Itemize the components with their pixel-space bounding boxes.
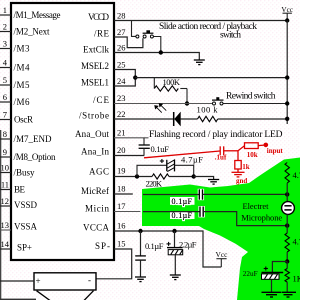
svg-text:8: 8 bbox=[3, 129, 7, 139]
red resistor 1k bbox=[235, 151, 250, 173]
svg-text:Ana_In: Ana_In bbox=[81, 147, 110, 157]
red wire 10k to input bbox=[258, 144, 264, 147]
svg-text:1k: 1k bbox=[242, 163, 250, 171]
svg-text:19: 19 bbox=[117, 166, 126, 176]
pin 11 BE bbox=[0, 180, 26, 195]
svg-text:OscR: OscR bbox=[14, 115, 33, 125]
svg-text:/M4: /M4 bbox=[14, 63, 31, 73]
svg-text:0.1µF: 0.1µF bbox=[172, 197, 193, 206]
svg-text:Ana_Out: Ana_Out bbox=[75, 129, 109, 139]
pin 27 /RE bbox=[94, 27, 126, 39]
speaker SPK bbox=[34, 273, 96, 300]
wire MicRef to cap bbox=[143, 194, 199, 196]
pin 3 /M3 bbox=[0, 39, 30, 54]
pin 5 /M5 bbox=[0, 75, 30, 90]
svg-text:2.2µF: 2.2µF bbox=[179, 239, 197, 249]
wire slide switch left contact to VCCD bbox=[132, 21, 136, 37]
svg-text:SP-: SP- bbox=[95, 241, 110, 251]
svg-text:MicRef: MicRef bbox=[81, 186, 109, 196]
junction rail end bbox=[285, 117, 289, 121]
pin 16 VCCA bbox=[83, 221, 126, 233]
junction AGC right bbox=[192, 174, 196, 178]
pin 25 MSEL2 bbox=[81, 60, 126, 71]
ground 2.2uF bbox=[170, 275, 181, 280]
wire cap to mic top bbox=[203, 193, 288, 195]
wire speaker plus bbox=[0, 280, 34, 282]
wire /Strobe to LED bbox=[114, 118, 174, 120]
pin 1 /M1_Message bbox=[0, 5, 61, 20]
svg-text:0.1uF: 0.1uF bbox=[151, 144, 170, 154]
svg-text:Flashing record / play indicat: Flashing record / play indicator LED bbox=[149, 130, 283, 140]
pin 12 VSSD bbox=[0, 196, 38, 210]
svg-text:VSSD: VSSD bbox=[14, 200, 38, 210]
junction mic top bbox=[285, 192, 289, 196]
svg-text:VCCD: VCCD bbox=[88, 12, 110, 22]
wire MicRef stub bbox=[114, 193, 133, 195]
red wire Ana_In bbox=[144, 151, 220, 158]
green highlighter region bbox=[142, 158, 300, 300]
svg-text:2: 2 bbox=[3, 22, 7, 32]
red ground gnd bbox=[232, 172, 248, 185]
capacitor 0.1uF coupling bbox=[139, 138, 170, 156]
wire /RE to slide switch middle contact bbox=[114, 37, 143, 48]
white label box 0.1uF bottom bbox=[170, 211, 195, 220]
wire slide switch right contact to ExtClk line bbox=[154, 37, 161, 53]
ground 0.1uF bbox=[135, 277, 146, 282]
svg-text:/M6: /M6 bbox=[14, 97, 31, 107]
capacitor 0.1uF VCCA bbox=[135, 231, 164, 277]
wire AGC to ground bbox=[194, 177, 214, 180]
red resistor 10k bbox=[245, 143, 259, 159]
resistor 4.7K top (mic bias) bbox=[285, 163, 303, 195]
Vcc rail vertical bbox=[286, 21, 288, 125]
pin 18 MicRef bbox=[81, 184, 126, 196]
capacitor 0.1uF mic bottom bbox=[200, 207, 203, 217]
scan edge left bbox=[0, 130, 1, 300]
red wire cap to T bbox=[224, 150, 238, 152]
svg-text:100K: 100K bbox=[163, 77, 181, 87]
svg-text:MSEL1: MSEL1 bbox=[81, 78, 109, 88]
wire MSEL2/MSEL1 join bbox=[114, 70, 135, 87]
capacitor 4.7uF electrolytic bbox=[160, 155, 203, 172]
pin 20 Ana_In bbox=[81, 145, 126, 156]
svg-text:switch: switch bbox=[220, 31, 241, 41]
svg-text:21: 21 bbox=[117, 128, 126, 138]
svg-text:AGC: AGC bbox=[89, 167, 109, 177]
resistor 4.7K bottom bbox=[285, 226, 303, 262]
resistor 100K bbox=[154, 77, 187, 104]
pin 15 SP- bbox=[95, 239, 126, 251]
svg-text:6: 6 bbox=[3, 92, 7, 102]
pin 24 MSEL1 bbox=[81, 76, 126, 87]
svg-text:12: 12 bbox=[1, 196, 10, 206]
pin 14 SP+ bbox=[0, 239, 32, 252]
pin 4 /M4 bbox=[0, 58, 30, 73]
svg-text:/Strobe: /Strobe bbox=[79, 111, 109, 121]
capacitor 2.2uF electrolytic bbox=[167, 231, 197, 275]
junction Vcc/VCCD bbox=[285, 18, 289, 22]
pin 28 VCCD bbox=[88, 11, 126, 23]
red input terminal bbox=[264, 143, 269, 148]
junction mic bias bbox=[285, 259, 289, 263]
svg-text:14: 14 bbox=[1, 239, 10, 249]
red capacitor .1uf bbox=[215, 146, 227, 161]
svg-text:/M1_Message: /M1_Message bbox=[14, 10, 61, 20]
svg-text:+: + bbox=[36, 276, 41, 286]
pin 10 /Busy bbox=[0, 163, 35, 178]
wire Ana_In bbox=[114, 155, 144, 157]
microphone M1 bbox=[282, 194, 295, 225]
ground 1K bbox=[282, 292, 296, 297]
Vcc symbol bottom bbox=[216, 250, 229, 267]
LED D1 bbox=[155, 104, 181, 127]
svg-text:220K: 220K bbox=[146, 178, 163, 188]
svg-text:22: 22 bbox=[117, 109, 126, 119]
junction slide/ExtClk bbox=[159, 50, 163, 54]
resistor 220K bbox=[146, 174, 169, 188]
svg-text:3: 3 bbox=[3, 39, 7, 49]
svg-text:.1uf: .1uf bbox=[215, 154, 227, 162]
wire LED to 100 k bbox=[180, 118, 197, 120]
svg-text:/M8_Option: /M8_Option bbox=[14, 152, 57, 162]
pin 2 /M2_Next bbox=[0, 22, 50, 37]
ground 22uF bbox=[262, 292, 282, 297]
pin 23 /CE bbox=[93, 93, 126, 105]
junction VCCA/2.2uF bbox=[172, 229, 176, 233]
svg-text:BE: BE bbox=[14, 185, 26, 195]
pin 22 /Strobe bbox=[79, 109, 126, 120]
svg-text:Vcc: Vcc bbox=[281, 6, 293, 14]
scan edge bottom bbox=[0, 299, 36, 300]
svg-text:SP+: SP+ bbox=[17, 242, 32, 252]
svg-text:Micin: Micin bbox=[85, 203, 110, 213]
pin 13 VSSA bbox=[0, 220, 38, 231]
wire rewind switch to rail bbox=[223, 103, 287, 105]
white label box 0.1uF top bbox=[170, 197, 195, 206]
pin 17 Micin bbox=[85, 201, 126, 213]
Vcc symbol top right bbox=[281, 6, 293, 21]
svg-text:24: 24 bbox=[117, 76, 126, 86]
wire VCCD to Vcc rail bbox=[114, 20, 287, 22]
svg-text:4.7: 4.7 bbox=[293, 170, 301, 180]
svg-text:0.1µF: 0.1µF bbox=[145, 241, 164, 251]
svg-text:10: 10 bbox=[1, 163, 10, 173]
red wire T to 10k bbox=[238, 146, 245, 151]
pin 8 /M7_END bbox=[0, 129, 52, 144]
svg-text:100 k: 100 k bbox=[197, 104, 219, 114]
svg-text:/RE: /RE bbox=[94, 29, 110, 39]
wire 220K to junction bbox=[169, 176, 194, 178]
svg-text:27: 27 bbox=[117, 27, 126, 37]
svg-text:7: 7 bbox=[3, 110, 7, 120]
svg-text:23: 23 bbox=[117, 93, 126, 103]
svg-text:4.7µF: 4.7µF bbox=[181, 155, 203, 165]
resistor 100 k bbox=[197, 104, 219, 121]
svg-text:10k: 10k bbox=[247, 151, 258, 159]
wire Micin stub bbox=[114, 211, 140, 213]
svg-text:Vcc: Vcc bbox=[216, 250, 229, 259]
wire Micin to cap bbox=[143, 211, 200, 213]
svg-text:9: 9 bbox=[3, 147, 7, 157]
capacitor 0.1uF mic top bbox=[199, 189, 202, 199]
wire MSEL net to Vcc rail bbox=[135, 77, 287, 79]
wire cap to mic bottom bbox=[203, 212, 287, 226]
svg-text:1: 1 bbox=[3, 5, 7, 15]
svg-text:26: 26 bbox=[117, 43, 126, 53]
svg-text:ExtClk: ExtClk bbox=[83, 44, 110, 54]
junction MSEL/rail bbox=[285, 75, 289, 79]
svg-text:-: - bbox=[88, 275, 91, 285]
junction 100K//CE bbox=[185, 101, 189, 105]
capacitor 22uF electrolytic bbox=[243, 267, 283, 293]
slide switch S1 bbox=[136, 30, 154, 38]
svg-text:VSSA: VSSA bbox=[14, 222, 38, 232]
svg-text:5: 5 bbox=[3, 75, 7, 85]
svg-text:input: input bbox=[267, 147, 284, 155]
rewind switch S2 bbox=[212, 97, 224, 105]
ground below slide switch bbox=[194, 60, 205, 65]
pin 26 ExtClk bbox=[83, 43, 126, 55]
junction rewind/rail bbox=[285, 101, 289, 105]
pin 6 /M6 bbox=[0, 92, 30, 107]
wire SP- to speaker bbox=[96, 249, 132, 279]
junction AGC left bbox=[135, 174, 139, 178]
wire ExtClk bbox=[114, 53, 199, 60]
pin 21 Ana_Out bbox=[75, 128, 126, 139]
IC U1 body bbox=[11, 3, 114, 260]
svg-text:/M2_Next: /M2_Next bbox=[14, 27, 50, 37]
svg-text:1K: 1K bbox=[293, 273, 301, 283]
svg-text:Microphone: Microphone bbox=[241, 213, 282, 223]
ground AGC bbox=[208, 180, 219, 185]
svg-text:25: 25 bbox=[117, 60, 126, 70]
svg-text:20: 20 bbox=[117, 145, 126, 155]
pin 9 /M8_Option bbox=[0, 147, 56, 162]
svg-text:Slide action record / playback: Slide action record / playback bbox=[159, 22, 257, 32]
svg-text:Electret: Electret bbox=[243, 201, 270, 211]
svg-text:22uF: 22uF bbox=[243, 270, 258, 278]
svg-text:4.7: 4.7 bbox=[293, 237, 301, 247]
pin 7 OscR bbox=[0, 110, 33, 125]
svg-text:0.1µF: 0.1µF bbox=[172, 211, 193, 220]
svg-text:18: 18 bbox=[117, 184, 126, 194]
wire 4.7uF to right bbox=[175, 165, 194, 176]
junction VCCA/0.1uF bbox=[138, 229, 142, 233]
wire Ana_Out bbox=[114, 137, 149, 139]
svg-text:VCCA: VCCA bbox=[83, 222, 110, 232]
wire VCCA bbox=[114, 231, 221, 267]
pin 19 AGC bbox=[89, 166, 126, 177]
svg-text:Rewind switch: Rewind switch bbox=[226, 91, 276, 101]
svg-text:28: 28 bbox=[117, 11, 126, 21]
wire /CE to rewind switch bbox=[114, 103, 212, 105]
junction mic bottom bbox=[285, 223, 289, 227]
svg-text:/Busy: /Busy bbox=[14, 168, 36, 178]
wire AGC bbox=[114, 176, 152, 178]
svg-text:15: 15 bbox=[117, 239, 126, 249]
svg-text:17: 17 bbox=[117, 201, 126, 211]
svg-text:MSEL2: MSEL2 bbox=[81, 61, 109, 71]
svg-text:/CE: /CE bbox=[93, 95, 110, 105]
svg-text:13: 13 bbox=[1, 220, 10, 230]
svg-text:16: 16 bbox=[117, 221, 126, 231]
svg-text:11: 11 bbox=[1, 180, 9, 190]
svg-text:/M3: /M3 bbox=[14, 44, 31, 54]
junction MSEL bbox=[133, 75, 137, 79]
wire to 22uF bbox=[272, 262, 287, 273]
wire AGC top branch bbox=[137, 165, 167, 176]
svg-text:/M5: /M5 bbox=[14, 80, 31, 90]
wire 100 k to rail bbox=[218, 118, 288, 120]
svg-text:gnd: gnd bbox=[236, 177, 247, 185]
resistor 1K bbox=[285, 262, 304, 293]
svg-text:/M7_END: /M7_END bbox=[14, 134, 53, 144]
